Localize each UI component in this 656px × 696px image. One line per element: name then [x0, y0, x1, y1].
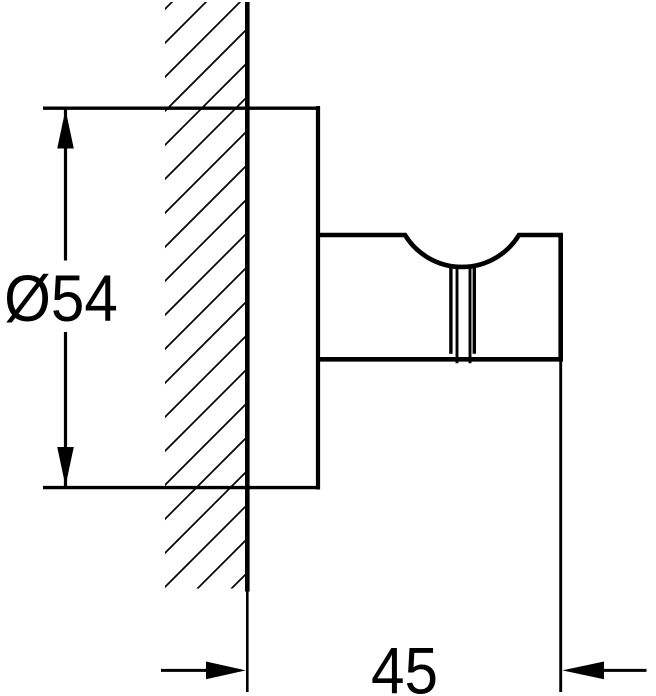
svg-text:45: 45	[371, 635, 438, 696]
svg-text:Ø54: Ø54	[4, 262, 118, 335]
